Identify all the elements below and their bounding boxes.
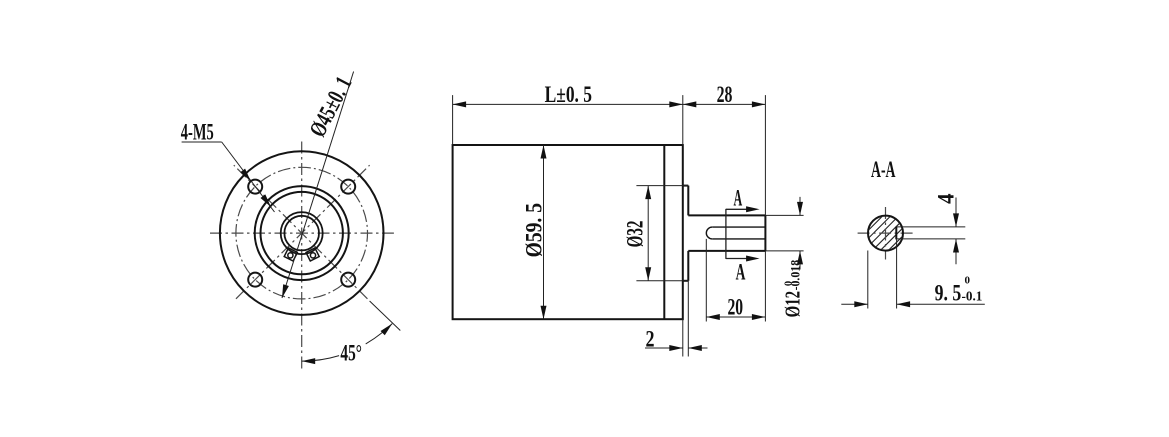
svg-text:-0.1: -0.1	[962, 288, 983, 303]
svg-text:4-M5: 4-M5	[181, 119, 214, 145]
svg-text:L±0. 5: L±0. 5	[545, 82, 592, 108]
svg-text:-0.018: -0.018	[789, 260, 803, 291]
svg-text:A: A	[734, 186, 743, 212]
svg-text:20: 20	[728, 295, 744, 321]
svg-text:9. 5: 9. 5	[935, 280, 962, 306]
svg-text:45°: 45°	[340, 340, 362, 366]
svg-text:Ø59. 5: Ø59. 5	[521, 203, 547, 257]
svg-text:4: 4	[934, 193, 960, 204]
svg-text:28: 28	[717, 82, 733, 108]
svg-text:2: 2	[646, 327, 655, 353]
svg-text:0: 0	[965, 275, 971, 287]
svg-text:A: A	[736, 260, 746, 286]
svg-text:A-A: A-A	[871, 157, 896, 183]
svg-text:Ø32: Ø32	[622, 221, 648, 248]
svg-text:Ø12: Ø12	[781, 291, 805, 318]
